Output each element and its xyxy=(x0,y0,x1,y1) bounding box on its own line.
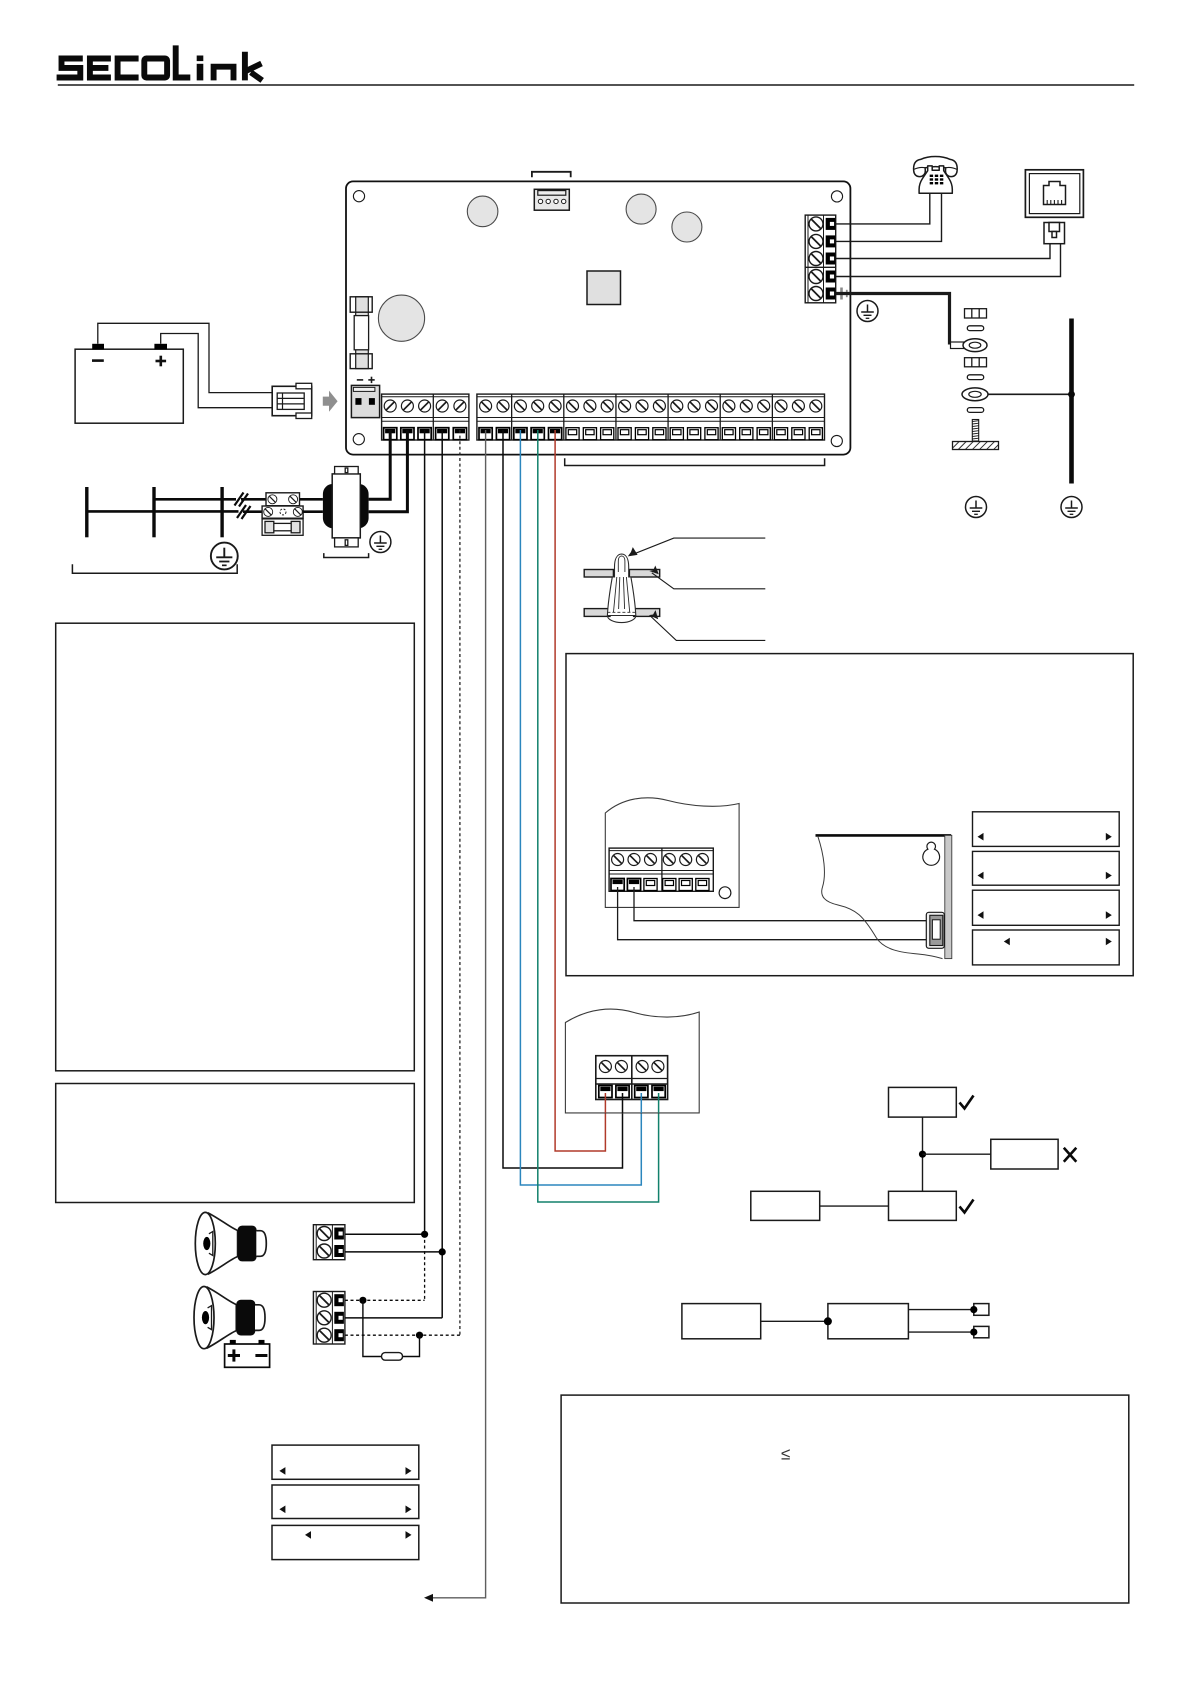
siren horn 2 xyxy=(194,1287,236,1349)
transformer top tab xyxy=(335,467,359,474)
terminal block TB2 (outputs/zones) xyxy=(477,394,825,440)
ring lug A xyxy=(951,339,988,352)
callout 2 arrow xyxy=(652,573,766,589)
minus sign xyxy=(92,359,104,362)
capacitor C3 xyxy=(672,212,702,242)
chain box B xyxy=(828,1304,909,1339)
wire siren B1 dashed xyxy=(345,1299,425,1301)
wire keypad red xyxy=(555,430,605,1151)
earth wire from TB3-5 xyxy=(836,294,950,345)
capacitor C4 big xyxy=(378,295,424,341)
transformer core xyxy=(323,484,369,528)
spring washer A xyxy=(967,326,983,331)
dimension box 2 xyxy=(973,851,1120,885)
plus sign xyxy=(156,356,167,367)
relay U1 xyxy=(587,271,621,305)
programming header J1 xyxy=(534,189,569,210)
wire TB3-1 to telephone xyxy=(836,193,930,224)
earth tag on TB3 xyxy=(837,288,849,300)
wire bell+ from board xyxy=(424,430,426,1234)
siren terminal block A xyxy=(313,1225,345,1260)
chain box A xyxy=(682,1304,761,1339)
capacitor C2 xyxy=(626,194,656,224)
mounting hole bottom-right xyxy=(831,435,842,446)
cable break lower xyxy=(237,505,262,519)
plastic standoff xyxy=(607,554,635,623)
EOL resistor xyxy=(382,1353,403,1361)
battery plug xyxy=(272,383,312,418)
battery plus wire xyxy=(161,334,273,408)
bus link line xyxy=(820,1205,889,1207)
bracket under mains xyxy=(72,564,237,573)
mains wire lower xyxy=(87,510,239,513)
wire fuse to transformer lower xyxy=(303,510,323,513)
earth symbol under washers xyxy=(966,497,987,518)
junction dot on ground bus xyxy=(1068,391,1075,398)
wire TB3-2 to telephone xyxy=(836,193,942,241)
bus box top xyxy=(889,1087,957,1117)
terminal block TB1 (AC/battery) xyxy=(382,394,469,440)
SECOLink logo xyxy=(57,45,263,80)
keyhole xyxy=(923,842,940,865)
bolt shaft xyxy=(972,420,978,442)
mounting plate side strip xyxy=(945,835,952,958)
chain terminal upper xyxy=(974,1304,989,1316)
siren battery xyxy=(225,1340,270,1367)
mains wire upper xyxy=(154,498,236,501)
brace under zone terminals xyxy=(565,458,825,465)
bus branch line xyxy=(923,1153,991,1155)
dimension box 4 xyxy=(973,930,1120,965)
fuse terminal block xyxy=(262,506,303,518)
PCB bar upper xyxy=(584,570,660,578)
callout 1 arrow xyxy=(631,538,766,555)
earth symbol near board xyxy=(857,301,878,322)
chain wire upper xyxy=(908,1309,973,1311)
spring washer C xyxy=(967,408,983,413)
chain terminal lower xyxy=(974,1326,989,1337)
bus box right xyxy=(991,1139,1058,1169)
keypad2 terminal block xyxy=(596,1056,668,1100)
battery connector J2 on board xyxy=(351,385,379,417)
telephone xyxy=(914,157,958,194)
battery minus wire xyxy=(98,323,272,392)
washer A xyxy=(965,309,987,318)
earth symbol transformer xyxy=(370,532,391,553)
TB1 wire clamps xyxy=(384,428,467,440)
keypad detail box xyxy=(566,654,1133,976)
wire siren B3 dashed xyxy=(345,1334,460,1336)
dimension box 3 xyxy=(973,890,1120,925)
PCB bar lower xyxy=(584,609,659,617)
wire bell trigger dashed xyxy=(459,430,461,1335)
chain wire lower xyxy=(908,1331,973,1333)
check mark bottom xyxy=(960,1200,974,1213)
mounting plate top edge xyxy=(816,834,952,837)
bus vertical line xyxy=(922,1117,924,1191)
ground bus bar xyxy=(1069,319,1074,484)
wire keypad blue xyxy=(520,430,641,1185)
bottom info box xyxy=(561,1395,1129,1603)
siren horn 1 xyxy=(195,1212,237,1274)
bottom dimension box 1 xyxy=(272,1445,419,1479)
wire keypad black xyxy=(503,430,623,1168)
terminal block TB3 (phone line) xyxy=(805,215,836,303)
fuse terminal block upper xyxy=(266,493,300,506)
tamper switch xyxy=(926,912,944,948)
transformer bottom tab xyxy=(335,538,359,547)
mounting hole bottom-left xyxy=(353,434,364,445)
bracket under transformer xyxy=(324,553,369,557)
keypad hole xyxy=(719,887,731,899)
wire transformer to board AC1 xyxy=(369,430,391,499)
wire transformer to board AC2 xyxy=(369,430,408,512)
keypad terminal block xyxy=(609,848,713,891)
dimension box 1 xyxy=(973,812,1120,847)
TB2 wire clamps xyxy=(479,428,822,440)
main control panel PCB xyxy=(346,181,850,454)
wire keypad green xyxy=(538,430,659,1202)
mounting hole top-right xyxy=(831,191,842,202)
wire bell- from board xyxy=(441,430,443,1318)
grey arrow xyxy=(323,391,338,412)
logo i dot and stem xyxy=(197,56,204,62)
bottom dimension box 3 xyxy=(272,1525,419,1559)
backup battery xyxy=(75,349,183,423)
wire siren B2 xyxy=(345,1317,442,1319)
fuse holder xyxy=(262,519,303,535)
svg-text:≤: ≤ xyxy=(781,1445,790,1464)
bottom dimension box 2 xyxy=(272,1485,419,1519)
keypad2 clamps xyxy=(599,1086,665,1113)
wire TB3-4 to line plug xyxy=(836,244,1061,277)
capacitor C1 xyxy=(467,196,498,227)
wire keypad to tamper 2 xyxy=(634,887,928,921)
ring lug B xyxy=(962,388,988,401)
wire siren A1 xyxy=(345,1233,425,1235)
battery plus terminal xyxy=(154,344,167,350)
cable break upper xyxy=(235,493,267,507)
mains line L xyxy=(85,487,88,537)
bracket above header xyxy=(532,172,571,178)
info box small left xyxy=(56,1084,415,1203)
wall socket xyxy=(1025,170,1083,218)
line plug xyxy=(1044,223,1065,244)
mounting hole top-left xyxy=(353,191,364,202)
wire TB3-3 to line plug xyxy=(836,244,1050,259)
fuse F1 xyxy=(350,297,372,369)
bus junction dot xyxy=(919,1151,926,1158)
washer B xyxy=(965,358,987,367)
callout 3 arrow xyxy=(651,617,765,641)
telephone keypad dots xyxy=(930,175,944,185)
chain link xyxy=(761,1320,828,1322)
spring washer B xyxy=(967,375,983,380)
wire fuse to transformer upper xyxy=(300,498,323,501)
earth symbol mains xyxy=(211,543,238,570)
keypad fragment bottom xyxy=(565,1009,699,1113)
transformer body xyxy=(332,474,360,538)
cross mark xyxy=(1064,1148,1077,1162)
bus box bottom xyxy=(889,1191,957,1220)
bus box left xyxy=(751,1191,820,1220)
earth symbol under ground bus xyxy=(1061,497,1082,518)
check mark top xyxy=(960,1096,974,1109)
wire keypad to tamper 1 xyxy=(618,887,928,940)
siren terminal block B xyxy=(313,1292,345,1345)
header rule xyxy=(58,84,1134,86)
mains line PE xyxy=(220,487,223,537)
battery minus terminal xyxy=(92,344,104,350)
hatched mounting plate xyxy=(953,442,999,450)
battery polarity label - + xyxy=(357,377,375,383)
info box large left xyxy=(56,623,415,1071)
wire aux grey to bottom arrow xyxy=(427,430,486,1598)
EOL resistor branch xyxy=(363,1300,420,1356)
keypad clamps xyxy=(611,879,709,891)
wire siren A2 xyxy=(345,1251,442,1253)
wire lug B to ground bus xyxy=(986,393,1072,395)
torn edge of plate xyxy=(818,837,943,959)
mains line N xyxy=(152,487,155,537)
keypad PCB fragment xyxy=(605,798,739,908)
